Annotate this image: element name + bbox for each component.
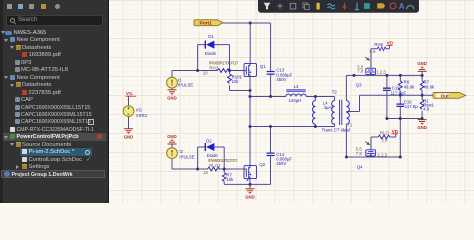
- svg-text:Trans CT Ideal: Trans CT Ideal: [322, 127, 350, 132]
- svg-text:7,8: 7,8: [356, 151, 363, 156]
- svg-text:5.0: 5.0: [381, 137, 388, 142]
- svg-text:VSRC: VSRC: [136, 113, 148, 118]
- svg-text:GND: GND: [417, 61, 427, 66]
- svg-text:VD: VD: [392, 129, 399, 134]
- svg-text:Q1: Q1: [260, 64, 266, 69]
- svg-text:Out: Out: [441, 93, 450, 99]
- svg-text:Q3: Q3: [356, 83, 362, 88]
- svg-text:IPULSE: IPULSE: [179, 154, 194, 159]
- svg-text:Port1: Port1: [200, 21, 213, 27]
- svg-text:D1: D1: [208, 34, 214, 39]
- svg-text:GND: GND: [167, 95, 177, 100]
- svg-text:RH6: RH6: [374, 42, 383, 47]
- svg-text:4µH: 4µH: [324, 105, 332, 110]
- svg-text:10: 10: [203, 170, 208, 175]
- svg-text:T2: T2: [332, 89, 338, 94]
- svg-text:49.9k: 49.9k: [424, 84, 435, 89]
- svg-text:450V: 450V: [276, 77, 286, 82]
- svg-text:450V: 450V: [276, 161, 286, 166]
- svg-text:RLO: RLO: [380, 131, 389, 136]
- svg-text:GND: GND: [167, 134, 177, 139]
- svg-text:Diode: Diode: [205, 51, 217, 56]
- svg-text:10k: 10k: [232, 79, 240, 84]
- svg-text:IPULSE: IPULSE: [178, 83, 193, 88]
- svg-text:Q2: Q2: [259, 162, 265, 167]
- svg-text:1,2,3: 1,2,3: [378, 152, 388, 157]
- svg-text:RH2: RH2: [209, 66, 218, 71]
- svg-text:49.9k: 49.9k: [404, 84, 415, 89]
- svg-text:I2: I2: [179, 149, 183, 154]
- svg-text:VG: VG: [126, 91, 133, 96]
- svg-text:D2: D2: [206, 139, 212, 144]
- svg-text:GND: GND: [124, 135, 134, 140]
- svg-text:1,2,3: 1,2,3: [376, 70, 386, 75]
- svg-text:GND: GND: [417, 125, 427, 130]
- svg-text:117.6µF: 117.6µF: [391, 91, 407, 96]
- svg-text:GND: GND: [245, 194, 255, 199]
- svg-text:5.6: 5.6: [370, 49, 377, 54]
- svg-text:C19: C19: [392, 85, 400, 90]
- svg-text:144µH: 144µH: [289, 98, 302, 103]
- svg-text:VG: VG: [136, 107, 143, 112]
- svg-text:T1: T1: [347, 123, 353, 128]
- svg-text:117.6µ: 117.6µ: [405, 104, 418, 109]
- svg-text:10k: 10k: [226, 177, 234, 182]
- svg-text:RLO2: RLO2: [209, 163, 221, 168]
- svg-text:VD: VD: [387, 41, 394, 46]
- svg-text:10: 10: [203, 70, 208, 75]
- svg-text:7,8: 7,8: [357, 69, 364, 74]
- svg-text:Q4: Q4: [357, 164, 363, 169]
- svg-text:A: A: [399, 2, 405, 11]
- svg-text:L3: L3: [294, 84, 299, 89]
- svg-text:4.8: 4.8: [423, 107, 430, 112]
